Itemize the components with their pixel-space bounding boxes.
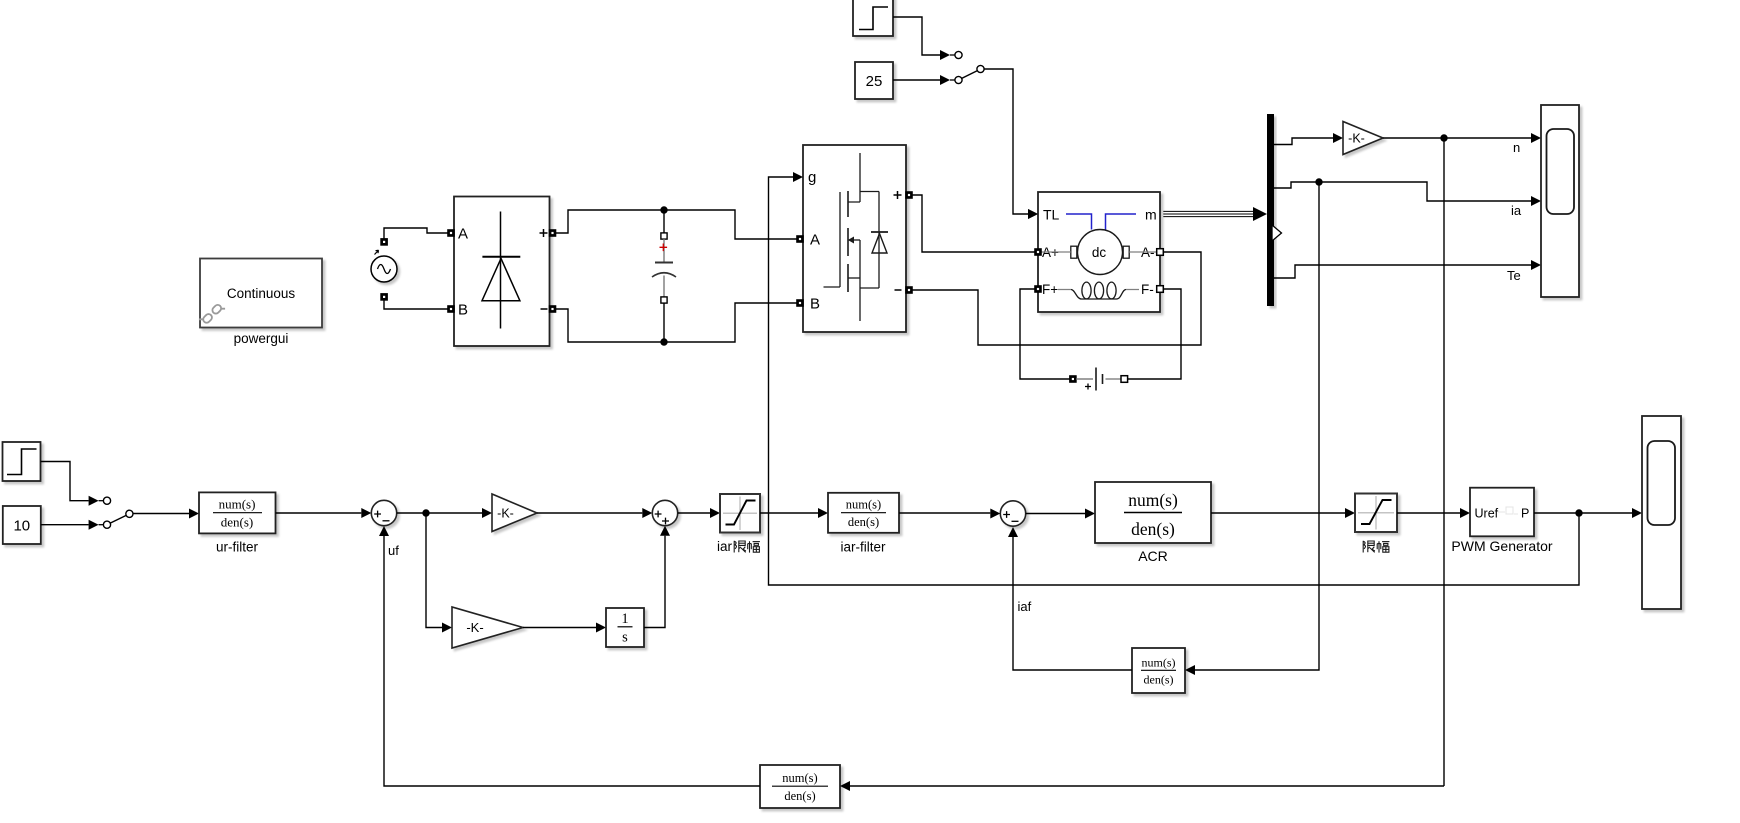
- saturation2 CJK label: [1363, 541, 1389, 553]
- sum junction 3 (PI combine): [652, 500, 677, 525]
- svg-text:iar-filter: iar-filter: [840, 540, 886, 555]
- svg-text:F+: F+: [1042, 282, 1058, 297]
- chopper g input arrow: [793, 172, 803, 182]
- wire saturation2 to PWM generator: [1397, 512, 1460, 514]
- bridge pin label -: [541, 308, 548, 310]
- bridge pin label +: [540, 229, 548, 237]
- bridge port minus: [549, 306, 556, 313]
- wire ur-filter to sum1: [276, 508, 372, 518]
- wire PI branch down to integral gain: [426, 513, 442, 628]
- wire step2 to switch contact 1: [893, 17, 955, 60]
- DC machine armature leads (grey): [1041, 251, 1156, 253]
- wire AC source to bridge A: [384, 228, 448, 239]
- junction node bottom rail / capacitor: [660, 338, 667, 345]
- wire constant10 to switch contact 2: [41, 520, 104, 530]
- manual switch contact circle (top input): [955, 51, 962, 58]
- wire bus selector out1 to gain: [1274, 138, 1333, 145]
- transfer function block iar-filter: [828, 493, 899, 533]
- svg-text:TL: TL: [1043, 207, 1060, 223]
- wire iaf filter output up to sum2: [1013, 537, 1132, 670]
- step source Step2 (top, load torque step): [853, 0, 893, 36]
- svg-text:10: 10: [13, 518, 30, 535]
- wire switch1 to ur-filter: [133, 509, 199, 519]
- transfer function block iaf feedback filter: [1132, 648, 1185, 693]
- svg-text:PWM Generator: PWM Generator: [1451, 538, 1552, 554]
- PWM Generator block: [1470, 488, 1534, 537]
- saturation block 2: [1355, 494, 1397, 533]
- chopper port minus: [906, 287, 913, 294]
- capacitor red + polarity label: [660, 244, 668, 252]
- DC machine port F-: [1157, 286, 1164, 293]
- DC machine port A+: [1035, 249, 1042, 256]
- chopper pin label -: [895, 289, 902, 291]
- wire capacitor top lead: [663, 210, 665, 233]
- capacitor C port bottom: [661, 297, 667, 303]
- svg-text:ur-filter: ur-filter: [216, 540, 259, 555]
- wire bus selector out2 to scope input ia: [1274, 182, 1531, 201]
- saturation block iar: [720, 494, 760, 533]
- bus signal m to bus selector (triple line): [1163, 211, 1256, 216]
- AC source port - (bottom): [381, 294, 388, 301]
- svg-text:den(s): den(s): [221, 515, 254, 530]
- svg-text:n: n: [1513, 140, 1520, 155]
- svg-text:den(s): den(s): [1131, 519, 1175, 539]
- bus wire arrowhead into bus selector: [1253, 207, 1267, 221]
- chopper freewheel diode: [871, 192, 888, 289]
- manual switch1 contact circle (top input): [103, 497, 110, 504]
- junction node n feedback: [1440, 134, 1447, 141]
- wire sum1 output: [397, 512, 482, 514]
- bridge port plus: [549, 230, 556, 237]
- scope2 block: [1642, 416, 1681, 609]
- chopper port B: [797, 300, 804, 307]
- chopper pin label +: [894, 191, 902, 199]
- svg-text:m: m: [1145, 207, 1157, 223]
- junction node ia feedback: [1315, 178, 1322, 185]
- svg-text:s: s: [622, 630, 628, 646]
- wire sum3 to saturation iar: [678, 512, 710, 514]
- step source Step1 (speed reference): [3, 442, 41, 481]
- junction node PWM feedback: [1575, 509, 1582, 516]
- svg-text:ACR: ACR: [1138, 548, 1168, 564]
- wire saturation to iar-filter: [760, 512, 818, 514]
- DC machine blue TL linkage icon: [1066, 214, 1136, 230]
- manual switch lever: [962, 71, 978, 79]
- capacitor C port top: [661, 233, 667, 239]
- DC machine left brush: [1071, 246, 1077, 258]
- wire ACR to saturation2: [1211, 512, 1345, 514]
- DC machine armature circle with dc text: [1078, 230, 1123, 275]
- wire F+ to battery +: [1020, 289, 1070, 379]
- transfer function block ur-filter: [199, 492, 276, 533]
- svg-text:den(s): den(s): [1144, 673, 1174, 687]
- wire gainI to integrator: [523, 627, 596, 629]
- wire gainP to sum3: [537, 512, 642, 514]
- svg-text:num(s): num(s): [1128, 490, 1178, 510]
- svg-text:den(s): den(s): [848, 515, 879, 529]
- svg-text:uf: uf: [388, 543, 399, 558]
- transfer function block ACR: [1095, 482, 1211, 543]
- wire gain to scope input n: [1383, 137, 1531, 139]
- DC field battery source: [1070, 368, 1128, 391]
- svg-text:iaf: iaf: [1018, 599, 1032, 614]
- svg-text:A: A: [458, 226, 468, 243]
- gain block -K- (speed scaling): [1343, 122, 1383, 155]
- svg-text:-K-: -K-: [1348, 132, 1365, 146]
- manual switch1 common contact circle: [126, 510, 133, 517]
- bridge port B: [448, 306, 455, 313]
- wire battery - to F-: [1127, 289, 1181, 379]
- svg-text:g: g: [808, 169, 816, 186]
- DC machine field winding coil: [1071, 282, 1126, 299]
- junction node top rail / capacitor: [660, 206, 667, 213]
- transfer function block speed feedback filter: [760, 765, 840, 808]
- bus selector chevron: [1272, 225, 1282, 241]
- manual switch1 lever: [110, 515, 126, 523]
- DC machine port A-: [1157, 249, 1164, 256]
- gain block -K- integral: [452, 607, 523, 648]
- wire switch to TL input of DC machine: [984, 69, 1038, 219]
- DC machine block: [1038, 192, 1160, 312]
- manual switch contact circle (bottom input): [955, 76, 962, 83]
- wire sum2 to ACR: [1026, 513, 1085, 515]
- bridge port A: [448, 230, 455, 237]
- wire chopper + to A+ of DC machine: [912, 195, 1034, 252]
- constant block value 10: [3, 506, 41, 544]
- DC machine TL input arrow: [1028, 209, 1038, 219]
- battery + polarity label: [1085, 384, 1091, 390]
- wire capacitor bottom lead: [663, 303, 665, 342]
- wire PWM P to scope2: [1534, 512, 1632, 514]
- powergui block: [200, 259, 322, 328]
- wire bridge - to DC bus bottom rail: [556, 303, 797, 342]
- svg-text:A: A: [810, 232, 820, 249]
- IGBT chopper subsystem block: [803, 145, 906, 332]
- integrator block 1/s: [606, 608, 644, 647]
- wire ia feedback vertical: [1195, 182, 1319, 670]
- powergui broken-link icon: [199, 301, 225, 327]
- wire bus selector out3 to scope input Te: [1274, 265, 1531, 278]
- svg-text:-K-: -K-: [466, 620, 483, 635]
- svg-text:iar: iar: [717, 539, 733, 554]
- manual switch1 contact circle (bottom input): [103, 521, 110, 528]
- DC machine right brush: [1123, 246, 1129, 258]
- wire integrator up to sum3: [644, 536, 665, 628]
- svg-text:1: 1: [621, 611, 628, 627]
- constant block value 25: [855, 62, 893, 99]
- svg-text:num(s): num(s): [846, 498, 881, 512]
- svg-text:powergui: powergui: [234, 331, 289, 346]
- bridge diode icon: [482, 212, 520, 329]
- wire bridge + to DC bus top rail: [556, 210, 797, 239]
- svg-text:num(s): num(s): [782, 771, 817, 785]
- wire A- of DC machine back to chopper -: [912, 252, 1201, 345]
- AC voltage source: [371, 250, 397, 282]
- wire iar-filter to sum2: [899, 512, 990, 514]
- svg-text:dc: dc: [1092, 245, 1107, 260]
- svg-text:num(s): num(s): [219, 497, 256, 512]
- svg-text:den(s): den(s): [784, 789, 815, 803]
- svg-text:B: B: [458, 302, 468, 319]
- gain block -K- proportional: [492, 494, 537, 532]
- wire AC source to bridge B: [384, 300, 448, 309]
- manual switch common contact circle: [977, 65, 984, 72]
- svg-text:num(s): num(s): [1142, 656, 1176, 670]
- wire PWM feedback to chopper g: [769, 177, 1580, 585]
- wire constant25 to switch contact 2: [893, 75, 955, 85]
- junction node PI branch: [422, 509, 429, 516]
- svg-text:F-: F-: [1141, 282, 1154, 297]
- wire step1 to switch contact 1: [41, 462, 104, 506]
- capacitor C symbol: [652, 239, 676, 297]
- sum junction 1 (speed error): [371, 500, 396, 525]
- chopper MOSFET icon: [824, 153, 880, 321]
- chopper port plus: [906, 192, 913, 199]
- DC machine port F+: [1035, 286, 1042, 293]
- wire n feedback into speed filter: [850, 785, 1444, 787]
- universal bridge rectifier block: [454, 197, 550, 347]
- svg-text:Te: Te: [1507, 268, 1521, 283]
- bus selector bar: [1267, 114, 1274, 306]
- saturation iar label (iar + CJK): [717, 539, 760, 554]
- scope block (n, ia, Te): [1541, 105, 1579, 297]
- svg-text:P: P: [1521, 507, 1529, 521]
- wire n feedback vertical: [1443, 138, 1445, 786]
- svg-text:Continuous: Continuous: [227, 286, 296, 301]
- chopper MOSFET body arrow: [848, 237, 854, 244]
- DC machine field winding leads (grey): [1058, 289, 1139, 291]
- svg-text:ia: ia: [1511, 203, 1522, 218]
- wire speed filter output up to sum1 (uf): [384, 536, 760, 786]
- svg-text:-K-: -K-: [497, 507, 514, 521]
- chopper port A: [797, 236, 804, 243]
- AC source port + (top): [381, 239, 388, 246]
- svg-text:B: B: [810, 296, 820, 313]
- svg-text:Uref: Uref: [1475, 507, 1499, 521]
- sum junction 2 (current error): [1000, 501, 1025, 526]
- svg-text:25: 25: [866, 73, 883, 90]
